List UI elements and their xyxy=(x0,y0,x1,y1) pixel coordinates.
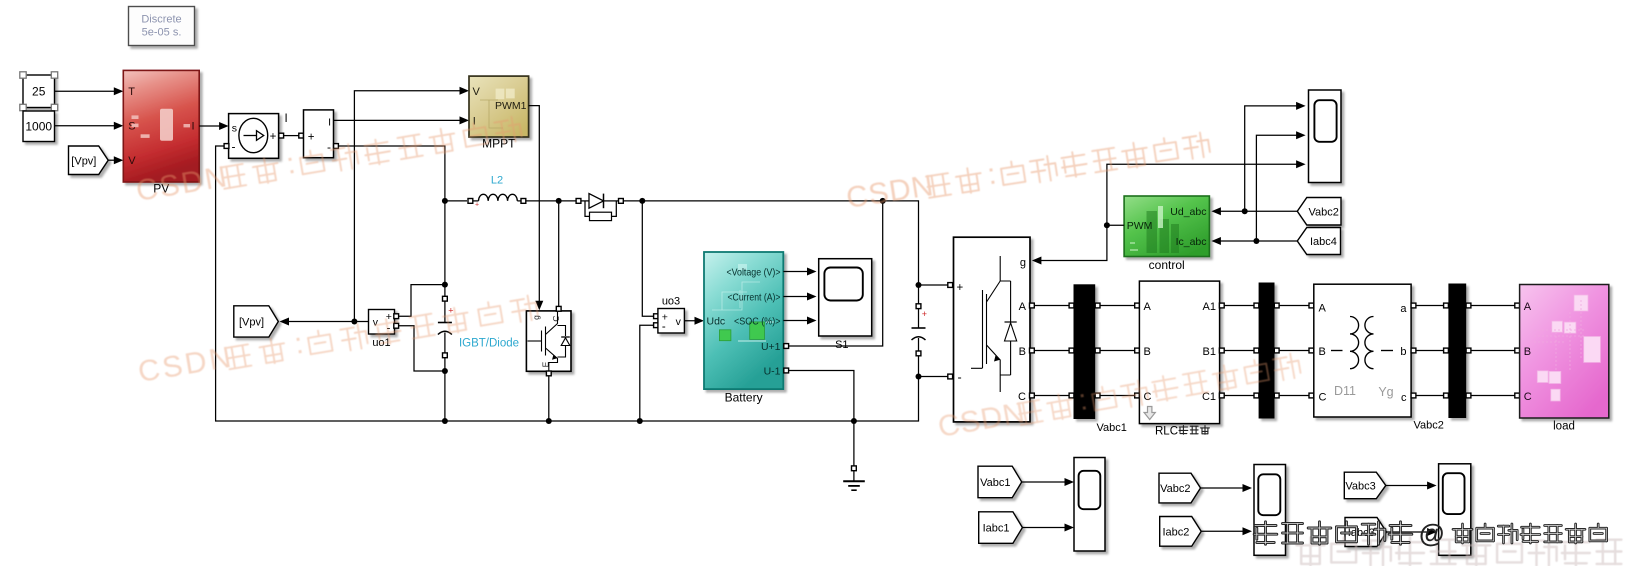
svg-text:<SOC (%)>: <SOC (%)> xyxy=(734,315,781,327)
svg-text:+: + xyxy=(270,131,277,143)
svg-text:A: A xyxy=(1319,302,1327,314)
svg-text:Yg: Yg xyxy=(1378,385,1393,399)
watermark gray bottom partial xyxy=(1297,538,1622,566)
svg-text:B: B xyxy=(1319,346,1326,358)
svg-text:load: load xyxy=(1553,421,1575,433)
wire PV I out to current source s xyxy=(199,125,226,127)
scope top-right xyxy=(1309,90,1342,183)
scope bottom2 xyxy=(1254,465,1286,556)
svg-text:V: V xyxy=(473,86,481,98)
wires RLC to bar2 xyxy=(1219,303,1224,308)
wire current meas - to DC+ node xyxy=(338,146,445,296)
svg-text:A: A xyxy=(1019,301,1027,313)
svg-text:+: + xyxy=(922,309,927,319)
load inner sketch xyxy=(1537,295,1600,401)
wire [Vpv] to PV V xyxy=(108,159,121,161)
capacitor C1 (input dc link) xyxy=(443,296,448,301)
wire constant1000 to PV S xyxy=(55,125,122,127)
svg-text:RLC: RLC xyxy=(1155,425,1178,437)
svg-text:25: 25 xyxy=(32,85,46,99)
watermark CSDN diagonal 4 xyxy=(935,346,1302,444)
svg-text:B: B xyxy=(1019,346,1026,358)
svg-text:g: g xyxy=(1020,257,1026,269)
svg-text:B: B xyxy=(1144,346,1151,358)
From tag Vabc2 (right) xyxy=(1297,198,1341,226)
svg-text:Iabc2: Iabc2 xyxy=(1162,526,1189,538)
diode D1 xyxy=(576,199,581,204)
svg-text:Battery: Battery xyxy=(725,391,763,405)
control inner bars xyxy=(1147,211,1180,253)
watermark CSDN diagonal 3 xyxy=(844,125,1211,215)
block Battery (teal) xyxy=(704,252,783,389)
inductor L2 xyxy=(468,199,473,204)
three-phase measurement bar2 xyxy=(1259,283,1275,419)
svg-text:+: + xyxy=(308,132,315,144)
wire cap to inverter + and - xyxy=(919,284,948,286)
junction IGBT collector tap xyxy=(556,198,562,204)
wire uo1 v to Goto [Vpv] xyxy=(287,321,369,323)
svg-text:-: - xyxy=(327,140,331,154)
wires bar3 to load xyxy=(1466,303,1471,308)
svg-text:C: C xyxy=(1524,391,1532,403)
svg-text:Discrete: Discrete xyxy=(141,14,181,26)
svg-text:IGBT/Diode: IGBT/Diode xyxy=(459,338,519,350)
svg-text:Udc: Udc xyxy=(707,315,726,327)
block uo1 voltage measurement xyxy=(369,310,395,335)
wire Vabc2 to control Ud_abc xyxy=(1214,210,1298,212)
wire MPPT PWM1 down to boost IGBT gate xyxy=(529,106,540,308)
constant 1000 xyxy=(23,111,55,142)
svg-text:A: A xyxy=(1524,301,1532,313)
svg-text:S1: S1 xyxy=(835,339,848,351)
svg-text:PWM1: PWM1 xyxy=(495,100,527,112)
wire L2 to diode xyxy=(526,200,576,202)
From tag Iabc4 (right) xyxy=(1297,228,1340,255)
wires bar2 to transformer xyxy=(1274,303,1279,308)
svg-text:Vabc2: Vabc2 xyxy=(1308,206,1338,218)
svg-text:Vabc2: Vabc2 xyxy=(1414,420,1444,432)
svg-text:<Current (A)>: <Current (A)> xyxy=(728,291,781,303)
svg-text:[Vpv]: [Vpv] xyxy=(239,316,264,328)
inverter output ports xyxy=(1030,303,1035,308)
svg-text:D11: D11 xyxy=(1334,384,1356,398)
transformer windings xyxy=(1331,317,1393,369)
inverter internal igbt/diode sketch xyxy=(971,256,1011,392)
wire IGBT C to DC+ rail xyxy=(558,203,560,306)
svg-text:PWM: PWM xyxy=(1127,220,1153,232)
top DC+ rail from diode to inverter xyxy=(623,201,918,285)
svg-text:I: I xyxy=(328,116,331,128)
svg-text:A1: A1 xyxy=(1203,301,1216,313)
wire DC+ to uo3 + xyxy=(642,201,653,316)
svg-text:B1: B1 xyxy=(1203,346,1216,358)
wires bar1 to RLC filter xyxy=(1095,303,1100,308)
capacitor C2 (inverter dc link) xyxy=(916,282,922,288)
block load (magenta) xyxy=(1520,285,1609,419)
svg-text:Vabc2: Vabc2 xyxy=(1160,483,1190,495)
wire Iabc4 branch to scope in2 xyxy=(1256,135,1303,241)
wire Iabc2 to scope xyxy=(1201,530,1249,532)
svg-text:<Voltage (V)>: <Voltage (V)> xyxy=(727,266,781,278)
From tag [Vpv] xyxy=(69,146,109,175)
three-phase measurement bar3 xyxy=(1448,284,1466,419)
svg-text:c: c xyxy=(1401,392,1407,404)
wire Vabc3 to scope xyxy=(1386,485,1434,487)
wire Vabc2 branch to scope in1 xyxy=(1245,106,1304,211)
block Discrete powergui xyxy=(129,7,195,46)
scope S1 xyxy=(819,259,872,336)
block PV (red) xyxy=(123,70,199,182)
scope bottom3 xyxy=(1439,464,1471,556)
block MPPT (khaki) xyxy=(469,76,529,137)
svg-text:-: - xyxy=(958,371,962,385)
block controlled current source xyxy=(229,114,279,159)
wire uo3 - to bottom rail xyxy=(640,325,654,421)
svg-text:s: s xyxy=(232,123,237,135)
svg-text:A: A xyxy=(1144,301,1152,313)
battery inner icon xyxy=(712,282,760,322)
wire current source + to current measurement + xyxy=(284,135,299,137)
svg-text:a: a xyxy=(1400,303,1407,315)
block RLC filter xyxy=(1139,281,1219,424)
wire Iabc4 to control Ic_abc xyxy=(1214,240,1298,242)
block control (green) xyxy=(1124,196,1209,257)
svg-text:[Vpv]: [Vpv] xyxy=(71,155,96,167)
svg-text:U+1: U+1 xyxy=(761,341,781,353)
svg-text:Iabc4: Iabc4 xyxy=(1310,236,1337,248)
svg-text:Ud_abc: Ud_abc xyxy=(1170,206,1206,218)
From tag Iabc1 (bottom) xyxy=(979,512,1023,544)
watermark CSDN diagonal 2 xyxy=(135,288,539,389)
wire uo1 - to cap bottom xyxy=(399,326,445,371)
wire current meas I out to MPPT I xyxy=(334,119,467,121)
wires Battery signals to scope S1 xyxy=(783,271,814,273)
svg-text:B: B xyxy=(1524,346,1531,358)
svg-text:Vabc3: Vabc3 xyxy=(1345,480,1375,492)
svg-text:-: - xyxy=(662,321,666,333)
svg-text:uo3: uo3 xyxy=(662,296,680,308)
bottom DC- rail xyxy=(445,379,919,421)
block current measurement xyxy=(299,133,304,138)
svg-text:+: + xyxy=(957,282,964,294)
block transformer xyxy=(1314,284,1411,417)
wire Vabc2b to scope xyxy=(1201,487,1250,489)
svg-text:+: + xyxy=(448,306,453,316)
block boost IGBT/Diode xyxy=(526,311,571,371)
svg-text:L2: L2 xyxy=(491,175,503,187)
svg-text:Iabc1: Iabc1 xyxy=(983,523,1010,535)
svg-text:v: v xyxy=(676,316,682,328)
wire Iabc1 to scope xyxy=(1022,527,1071,529)
selection handles of constant 25 xyxy=(20,72,26,78)
constant 25 xyxy=(23,75,55,108)
scope bottom1 xyxy=(1074,458,1105,552)
wire constant25 to PV T xyxy=(55,90,122,92)
current source - port xyxy=(224,144,229,149)
svg-text:V: V xyxy=(128,155,136,167)
svg-text:5e-05 s.: 5e-05 s. xyxy=(142,27,182,39)
svg-text:C: C xyxy=(1319,391,1327,403)
wire IGBT E to bottom rail xyxy=(548,376,550,421)
From tag Iabc3 (bottom, behind watermark) xyxy=(1345,518,1387,547)
wires transformer to bar3 xyxy=(1411,303,1416,308)
svg-text:@: @ xyxy=(1419,518,1444,548)
current measurement - port xyxy=(334,144,339,149)
wire Vabc1 to scope xyxy=(1022,481,1072,483)
svg-text:Ic_abc: Ic_abc xyxy=(1176,236,1207,248)
three-phase measurement bar1 xyxy=(1074,284,1096,419)
ground symbol xyxy=(853,421,855,466)
RLC gray arrow icon xyxy=(1144,407,1155,420)
svg-text:+: + xyxy=(475,202,479,209)
svg-text:Vabc1: Vabc1 xyxy=(1097,422,1127,434)
diode snubber xyxy=(585,201,590,217)
wire uo3 v to Battery Udc xyxy=(684,320,701,322)
block inverter universal bridge xyxy=(954,237,1031,422)
svg-text:v: v xyxy=(373,316,379,328)
svg-text:Vabc1: Vabc1 xyxy=(980,477,1010,489)
svg-text:U-1: U-1 xyxy=(764,365,781,377)
wire Battery U+1 to DC+ xyxy=(789,203,883,346)
wires inverter ABC to measurement bar1 xyxy=(1034,305,1069,307)
watermark CSDN diagonal 1 xyxy=(133,109,523,208)
From tag Vabc2 (bottom) xyxy=(1159,473,1201,503)
From tag Vabc1 (bottom) xyxy=(978,466,1022,498)
PV inner mask icon xyxy=(160,109,173,141)
watermark juejin dark outlined text xyxy=(1254,518,1606,548)
From tag Iabc2 (bottom) xyxy=(1160,517,1202,547)
svg-text:I: I xyxy=(191,121,194,133)
IGBT internal sketch xyxy=(528,312,566,371)
svg-text:b: b xyxy=(1400,346,1406,358)
svg-text:T: T xyxy=(128,86,135,98)
wire current source minus to left rail down to bottom rail xyxy=(216,146,445,421)
From tag Vabc3 (bottom) xyxy=(1344,472,1386,499)
svg-text:I: I xyxy=(285,113,288,125)
current source + port xyxy=(279,133,284,138)
svg-text:control: control xyxy=(1149,258,1185,272)
wire Iabc3 to scope xyxy=(1387,531,1435,533)
wire Battery U-1 to DC- rail xyxy=(789,371,854,420)
wire uo1 + to cap top xyxy=(399,285,445,317)
svg-text:C: C xyxy=(551,315,561,321)
svg-text:1000: 1000 xyxy=(25,120,52,134)
svg-text:-: - xyxy=(232,140,236,154)
wire uo1 tap to MPPT V xyxy=(354,91,466,322)
wire control PWM to inverter g and to scope xyxy=(1107,224,1124,226)
